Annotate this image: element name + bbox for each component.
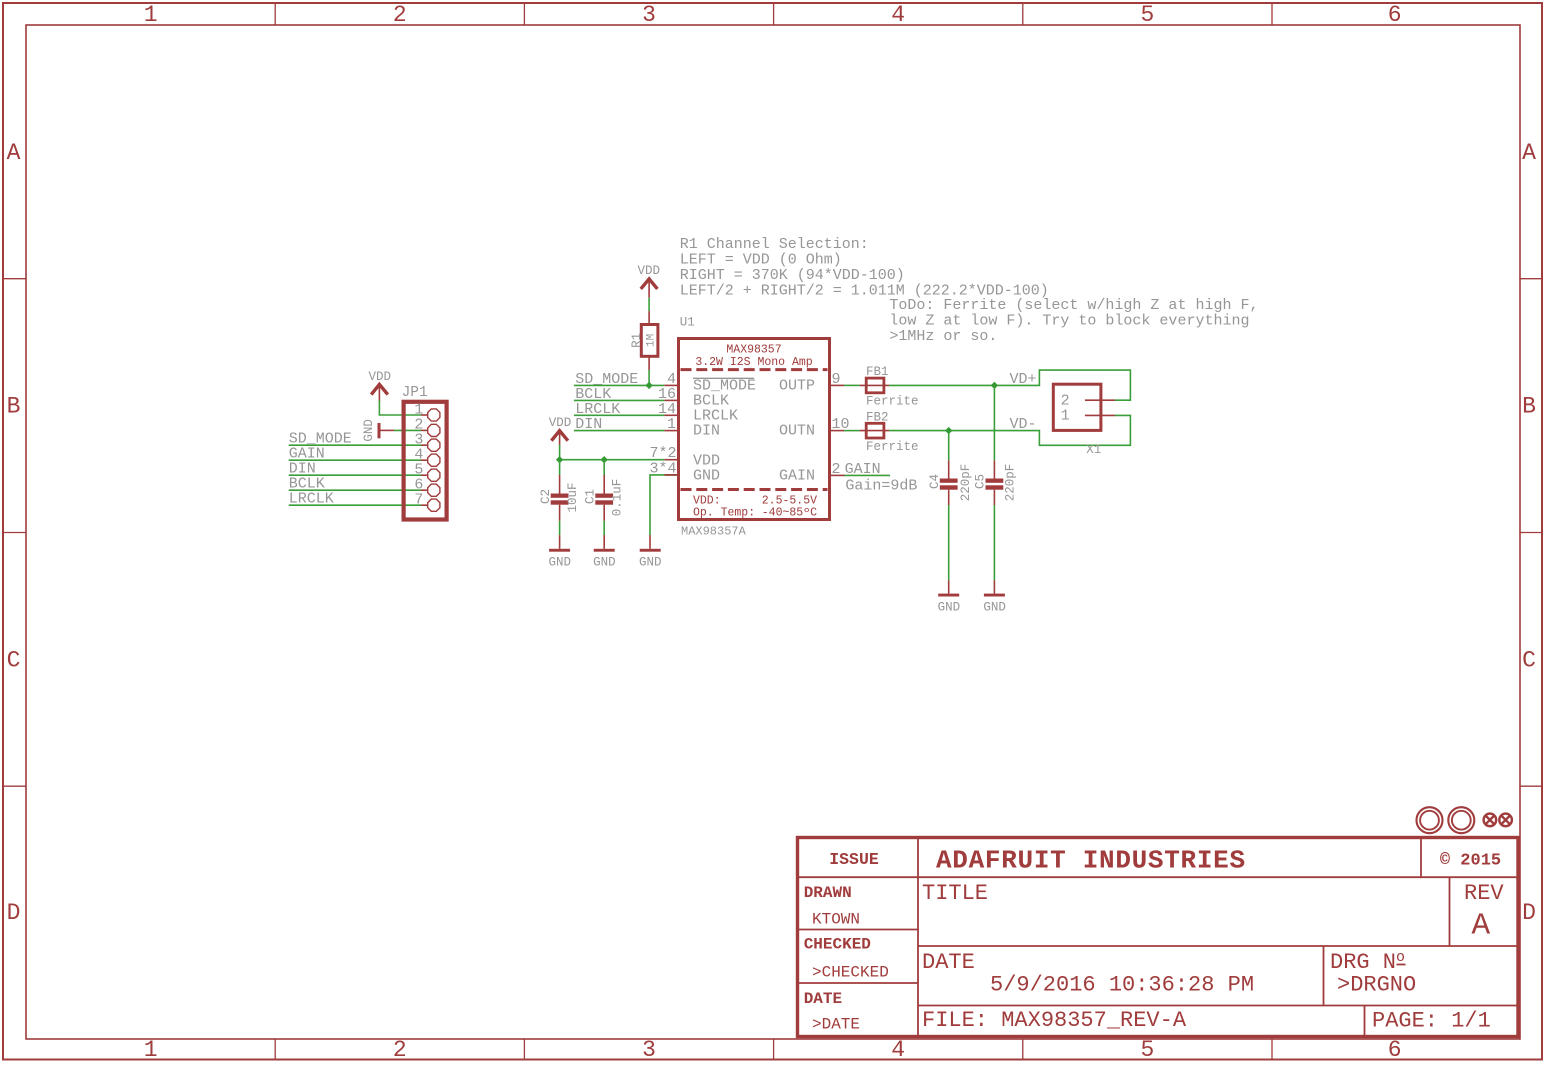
wire OUTP to FB1 bbox=[844, 384, 859, 386]
ground symbol C5 bbox=[984, 594, 1005, 597]
svg-text:OUTP: OUTP bbox=[779, 378, 815, 395]
svg-text:3: 3 bbox=[642, 2, 656, 28]
svg-text:-40~85ºC: -40~85ºC bbox=[762, 507, 817, 520]
frame row letters right bbox=[1522, 140, 1536, 926]
svg-text:>1MHz or so.: >1MHz or so. bbox=[889, 328, 997, 345]
wire DIN bbox=[574, 430, 665, 432]
GND symbol at JP1 pin 2 bbox=[379, 423, 394, 438]
wire VDD arrow to rail bbox=[559, 445, 561, 460]
frame row letters left bbox=[7, 140, 21, 926]
note R1 channel selection bbox=[680, 236, 1049, 299]
svg-text:o: o bbox=[1396, 949, 1405, 966]
pin stub U1 pin 9 bbox=[830, 384, 845, 386]
svg-text:DATE: DATE bbox=[804, 990, 842, 1008]
pin stub JP1 pin2 bbox=[421, 429, 428, 431]
svg-text:RIGHT = 370K (94*VDD-100): RIGHT = 370K (94*VDD-100) bbox=[680, 267, 905, 284]
svg-text:GND: GND bbox=[639, 555, 662, 569]
svg-text:GND: GND bbox=[938, 600, 961, 614]
svg-text:VDD:: VDD: bbox=[693, 494, 721, 507]
pin stub JP1 pin4 bbox=[421, 459, 428, 461]
svg-text:Gain=9dB: Gain=9dB bbox=[845, 478, 917, 495]
svg-text:KTOWN: KTOWN bbox=[812, 911, 860, 929]
pin stub JP1 pin5 bbox=[421, 474, 428, 476]
svg-text:>DATE: >DATE bbox=[812, 1015, 860, 1033]
svg-text:>DRGNO: >DRGNO bbox=[1337, 973, 1416, 998]
svg-text:5: 5 bbox=[1140, 2, 1154, 28]
pin stub C5 gnd bbox=[993, 580, 995, 593]
svg-text:3*4: 3*4 bbox=[649, 460, 676, 477]
svg-text:C5: C5 bbox=[974, 474, 988, 489]
pin stub C4 top bbox=[948, 460, 950, 478]
VDD supply arrow at JP1 bbox=[371, 384, 388, 400]
VDD supply arrow above C2 bbox=[551, 431, 568, 445]
ferrite bead FB2 bbox=[859, 410, 918, 453]
svg-text:C: C bbox=[7, 647, 21, 673]
svg-text:Op. Temp:: Op. Temp: bbox=[693, 507, 755, 520]
pin stub U1 pin 16 bbox=[664, 399, 678, 401]
svg-text:>CHECKED: >CHECKED bbox=[812, 963, 889, 981]
wire C5 to GND bbox=[993, 505, 995, 580]
svg-text:JP1: JP1 bbox=[402, 385, 428, 401]
op-amp U1 body bbox=[679, 339, 830, 520]
svg-text:VDD: VDD bbox=[369, 370, 392, 384]
ground symbol center bbox=[640, 549, 661, 552]
junction VDD rail / C2 bbox=[556, 456, 563, 463]
svg-text:6: 6 bbox=[1388, 2, 1402, 28]
JP1 pad octagons pins 1-7 bbox=[428, 409, 440, 511]
pin stub C5 top bbox=[993, 460, 995, 478]
JP1 pin numbers 1-7 bbox=[414, 402, 423, 509]
ferrite bead FB1 bbox=[859, 365, 918, 408]
svg-text:PAGE: 1/1: PAGE: 1/1 bbox=[1372, 1009, 1491, 1034]
svg-text:C1: C1 bbox=[584, 489, 598, 504]
svg-text:R1 Channel Selection:: R1 Channel Selection: bbox=[680, 236, 869, 253]
ground symbol C2 bbox=[549, 549, 570, 552]
pin stub U1 pin 4 bbox=[664, 384, 678, 386]
frame column numbers bottom bbox=[144, 1037, 1402, 1063]
wire VDD to R1 bbox=[648, 298, 650, 311]
svg-text:OUTN: OUTN bbox=[779, 423, 815, 440]
svg-text:6: 6 bbox=[1388, 1037, 1402, 1063]
svg-text:VDD: VDD bbox=[637, 264, 660, 278]
svg-text:4: 4 bbox=[891, 2, 905, 28]
svg-text:A: A bbox=[7, 140, 21, 166]
pin stub GND symbol center bbox=[649, 535, 651, 549]
svg-text:DATE: DATE bbox=[922, 950, 975, 975]
svg-text:GND: GND bbox=[693, 468, 720, 485]
pin stub C4 bottom bbox=[948, 490, 950, 505]
wire GND to JP1 pin 2 bbox=[394, 429, 421, 431]
pin stub C1 bottom bbox=[603, 505, 605, 521]
svg-text:Ferrite: Ferrite bbox=[866, 395, 919, 409]
connector JP1 body bbox=[404, 402, 447, 520]
svg-text:REV: REV bbox=[1464, 881, 1504, 906]
pin stub JP1 pin3 bbox=[421, 444, 428, 446]
svg-text:DRAWN: DRAWN bbox=[804, 884, 852, 902]
svg-text:D: D bbox=[7, 900, 21, 926]
title block line under TITLE row bbox=[918, 945, 1517, 947]
wire BCLK to JP1 pin 6 bbox=[289, 489, 421, 491]
svg-text:220pF: 220pF bbox=[1003, 464, 1017, 502]
frame column ticks bottom bbox=[275, 1039, 1272, 1059]
svg-text:FB2: FB2 bbox=[866, 410, 889, 424]
svg-text:DIN: DIN bbox=[693, 423, 720, 440]
wire VDD rail bbox=[560, 459, 665, 461]
wire junction down to C4 bbox=[948, 431, 950, 461]
pin stub X1 pin 1 bbox=[1085, 414, 1115, 416]
svg-text:DRG N: DRG N bbox=[1330, 950, 1396, 975]
svg-text:4: 4 bbox=[891, 1037, 905, 1063]
wire LRCLK bbox=[574, 414, 665, 416]
wire R1 to SD_MODE net bbox=[648, 370, 650, 385]
note ToDo ferrite bbox=[889, 297, 1258, 345]
svg-text:1: 1 bbox=[667, 416, 676, 433]
wire C1 to GND bbox=[603, 521, 605, 535]
pin stub C2 bottom bbox=[559, 505, 561, 521]
VDD supply arrow above R1 bbox=[641, 279, 658, 298]
title block outer box bbox=[798, 838, 1519, 1037]
svg-text:FILE: MAX98357_REV-A: FILE: MAX98357_REV-A bbox=[922, 1008, 1187, 1033]
pin stub X1 pin 2 bbox=[1085, 399, 1115, 401]
frame column numbers top bbox=[144, 2, 1402, 28]
svg-text:3.2W I2S Mono Amp: 3.2W I2S Mono Amp bbox=[695, 356, 812, 369]
svg-text:ADAFRUIT INDUSTRIES: ADAFRUIT INDUSTRIES bbox=[936, 846, 1246, 876]
logo ring 2 bbox=[1448, 807, 1474, 833]
title block left col line 3 bbox=[798, 982, 918, 984]
pin stub C2 top bbox=[559, 475, 561, 494]
junction OUTN / C4 bbox=[945, 427, 952, 434]
svg-text:1: 1 bbox=[144, 1037, 158, 1063]
svg-text:ISSUE: ISSUE bbox=[829, 850, 879, 869]
wire junction down to C5 bbox=[993, 385, 995, 460]
frame column ticks top bbox=[275, 4, 1272, 25]
svg-text:TITLE: TITLE bbox=[922, 881, 988, 906]
pin stub U1 pin 2 (GAIN) bbox=[830, 474, 845, 476]
svg-text:X1: X1 bbox=[1086, 443, 1101, 457]
title block left column divider bbox=[917, 837, 919, 1037]
svg-text:low Z at low F). Try to block: low Z at low F). Try to block everything bbox=[889, 313, 1249, 330]
pin stub U1 pin 14 bbox=[664, 414, 678, 416]
svg-text:© 2015: © 2015 bbox=[1440, 852, 1501, 871]
title block PAGE divider bbox=[1364, 1006, 1366, 1037]
title block row line under ADAFRUIT bbox=[798, 876, 1517, 878]
wire C2 to GND bbox=[559, 521, 561, 535]
svg-text:GND: GND bbox=[983, 600, 1006, 614]
svg-text:VDD: VDD bbox=[549, 416, 572, 430]
svg-text:GAIN: GAIN bbox=[779, 468, 815, 485]
svg-text:B: B bbox=[1522, 394, 1536, 420]
junction VDD rail / C1 bbox=[601, 456, 608, 463]
pin stub C1 gnd bbox=[603, 535, 605, 549]
svg-text:3: 3 bbox=[642, 1037, 656, 1063]
logo ring 1 bbox=[1417, 807, 1443, 833]
pin stub C1 top bbox=[603, 475, 605, 494]
pin stub U1 pin 1 bbox=[664, 430, 678, 432]
wire FB2 to VD- bbox=[889, 415, 1130, 445]
junction SD_MODE / R1 bbox=[645, 382, 652, 389]
svg-text:1: 1 bbox=[1061, 408, 1070, 425]
ground symbol C4 bbox=[938, 594, 959, 597]
wire GAIN bbox=[845, 474, 891, 476]
pin stub JP1 pin7 bbox=[421, 504, 428, 506]
svg-text:MAX98357A: MAX98357A bbox=[681, 525, 747, 539]
capacitor C1 bbox=[584, 460, 625, 570]
svg-text:D: D bbox=[1522, 900, 1536, 926]
svg-text:GND: GND bbox=[362, 419, 376, 442]
wire VDD to JP1 pin 1 bbox=[379, 401, 421, 416]
svg-text:5/9/2016 10:36:28 PM: 5/9/2016 10:36:28 PM bbox=[990, 973, 1254, 998]
svg-text:7: 7 bbox=[414, 492, 423, 509]
pin stub C4 gnd bbox=[948, 580, 950, 593]
pin stub U1 pin 10 bbox=[830, 430, 845, 432]
svg-text:1M: 1M bbox=[646, 334, 658, 347]
wire GND pin bend bbox=[650, 475, 679, 535]
svg-text:5: 5 bbox=[1140, 1037, 1154, 1063]
title block copyright divider bbox=[1420, 837, 1422, 877]
svg-text:FB1: FB1 bbox=[866, 365, 889, 379]
pin stub JP1 pin1 bbox=[421, 414, 428, 416]
wire FB1 to VD+ bbox=[889, 370, 1130, 400]
svg-text:A: A bbox=[1522, 140, 1536, 166]
wire OUTN to FB2 bbox=[844, 430, 859, 432]
svg-text:GAIN: GAIN bbox=[845, 461, 881, 478]
svg-text:VD-: VD- bbox=[1010, 416, 1037, 433]
capacitor C2 bbox=[539, 460, 580, 570]
svg-text:C4: C4 bbox=[928, 474, 942, 489]
title block left col line 2 bbox=[798, 929, 918, 931]
wire C4 to GND bbox=[948, 505, 950, 580]
svg-text:CHECKED: CHECKED bbox=[804, 936, 871, 954]
svg-text:A: A bbox=[1472, 909, 1491, 944]
svg-text:GND: GND bbox=[549, 555, 572, 569]
connector X1 body bbox=[1053, 384, 1101, 430]
title block DRG divider bbox=[1323, 946, 1325, 1006]
pin stub U1 pin 7*2 bbox=[664, 459, 678, 461]
wire LRCLK to JP1 pin 7 bbox=[289, 504, 421, 506]
wire GAIN to JP1 pin 4 bbox=[289, 459, 421, 461]
U1 dashed separator bottom bbox=[681, 488, 828, 491]
wire rail to C1 bbox=[603, 460, 605, 475]
logo crosshair hole 2 bbox=[1499, 814, 1512, 827]
U1 dashed separator top bbox=[681, 368, 828, 371]
title block line under DATE row bbox=[918, 1005, 1517, 1007]
wire SD_MODE to JP1 pin 3 bbox=[289, 444, 421, 446]
svg-text:2: 2 bbox=[393, 1037, 407, 1063]
pin stub U1 pin 3*4 bbox=[664, 474, 678, 476]
svg-text:C: C bbox=[1522, 647, 1536, 673]
svg-text:220pF: 220pF bbox=[959, 464, 973, 502]
pin stub R1 bottom bbox=[648, 356, 650, 370]
svg-text:R1: R1 bbox=[630, 333, 644, 348]
svg-text:10uF: 10uF bbox=[566, 482, 580, 512]
svg-text:2: 2 bbox=[393, 2, 407, 28]
wire BCLK bbox=[574, 399, 665, 401]
logo crosshair hole 1 bbox=[1484, 814, 1497, 827]
svg-text:VD+: VD+ bbox=[1010, 371, 1037, 388]
frame row ticks right bbox=[1520, 279, 1541, 787]
svg-text:1: 1 bbox=[144, 2, 158, 28]
svg-text:Ferrite: Ferrite bbox=[866, 440, 919, 454]
svg-text:GND: GND bbox=[593, 555, 616, 569]
svg-text:C2: C2 bbox=[539, 489, 553, 504]
resistor R1 bbox=[641, 325, 658, 357]
svg-text:LEFT = VDD (0 Ohm): LEFT = VDD (0 Ohm) bbox=[680, 251, 842, 268]
wire DIN to JP1 pin 5 bbox=[289, 474, 421, 476]
junction OUTP / C5 bbox=[991, 382, 998, 389]
svg-text:U1: U1 bbox=[680, 316, 695, 330]
svg-text:2.5-5.5V: 2.5-5.5V bbox=[762, 494, 817, 507]
pin stub R1 top bbox=[648, 311, 650, 324]
frame row ticks left bbox=[4, 279, 26, 787]
svg-text:MAX98357: MAX98357 bbox=[726, 344, 781, 357]
pin stub JP1 pin6 bbox=[421, 489, 428, 491]
pin stub C2 gnd bbox=[559, 535, 561, 549]
title block REV divider bbox=[1449, 877, 1451, 946]
svg-text:ToDo: Ferrite (select w/high Z: ToDo: Ferrite (select w/high Z at high F… bbox=[889, 297, 1258, 314]
wire rail to C2 bbox=[559, 460, 561, 475]
svg-text:0.1uF: 0.1uF bbox=[610, 479, 624, 517]
wire SD_MODE bbox=[574, 384, 665, 386]
ground symbol C1 bbox=[594, 549, 615, 552]
pin stub C5 bottom bbox=[993, 490, 995, 505]
svg-text:B: B bbox=[7, 394, 21, 420]
